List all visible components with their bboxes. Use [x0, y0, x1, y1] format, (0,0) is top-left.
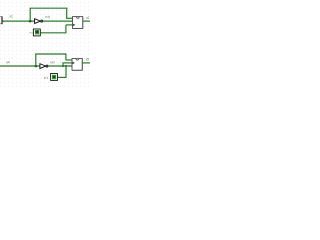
node junction top — [29, 20, 32, 23]
inverter U3 — [40, 64, 48, 69]
wire clock bottom horizontal — [58, 76, 67, 78]
wire input x4 — [0, 65, 40, 67]
wire feedback up — [29, 8, 31, 21]
wire clock top to corner — [41, 32, 66, 34]
flip-flop U2 box — [73, 17, 83, 29]
wire input x1 to inverter — [4, 20, 35, 22]
wire U4 output — [82, 62, 90, 64]
svg-text:x2: x2 — [86, 16, 90, 20]
wire down to clock bottom — [65, 66, 67, 77]
wire branch up to pin2 — [62, 63, 64, 66]
svg-text:rst: rst — [29, 30, 33, 34]
node junction clock drop — [65, 65, 67, 67]
node junction bottom — [35, 65, 38, 68]
wire U2 output — [83, 20, 90, 22]
wire feedback top horizontal — [30, 7, 68, 9]
clock component bottom (green square) — [51, 74, 58, 81]
wire clock top vertical — [65, 25, 67, 34]
svg-text:nxt: nxt — [45, 15, 50, 19]
svg-text:x1: x1 — [9, 15, 13, 19]
wire feedback down — [66, 8, 68, 19]
wire feedback bottom up — [35, 54, 37, 66]
svg-text:x4: x4 — [6, 60, 10, 64]
flip-flop U4 box — [72, 58, 82, 70]
wire feedback bottom into pin1 — [66, 59, 72, 61]
wire inverter out to pin2 — [43, 20, 73, 22]
wire feedback into pin1 — [66, 17, 72, 19]
svg-text:b1: b1 — [44, 76, 48, 80]
wire clock top into pin3 — [66, 24, 73, 26]
clock component top (green square) — [33, 29, 40, 36]
svg-text:nxt: nxt — [50, 60, 55, 64]
node junction branch pin2 — [62, 65, 64, 67]
wire inverter U3 out to pin3 — [48, 65, 72, 67]
wire feedback bottom down — [65, 53, 67, 60]
svg-text:x5: x5 — [86, 57, 90, 61]
wire branch into pin2 — [62, 62, 72, 64]
wire feedback bottom horizontal — [35, 53, 66, 55]
inverter U1 — [35, 19, 43, 24]
input pin x1 (partially off-canvas left) — [0, 16, 4, 24]
